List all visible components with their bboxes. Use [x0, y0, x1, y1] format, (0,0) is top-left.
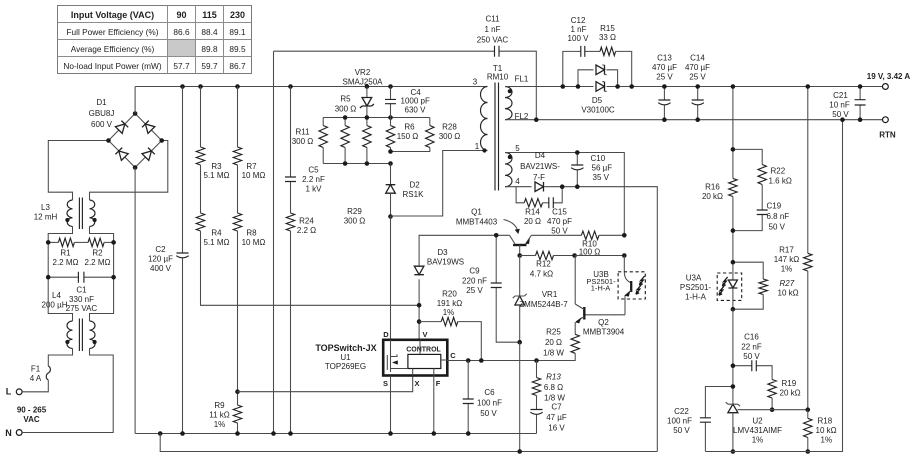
- optocoupler U3B: [586, 270, 645, 315]
- svg-text:C12: C12: [571, 16, 586, 25]
- wire V riser to Q1: [419, 235, 509, 339]
- svg-text:50 V: 50 V: [673, 426, 690, 435]
- capacitor C6: [463, 361, 502, 434]
- svg-text:F: F: [436, 379, 441, 388]
- svg-text:C13: C13: [657, 54, 672, 63]
- terminal L: [6, 387, 22, 397]
- capacitor C9: [462, 235, 520, 342]
- svg-text:U2: U2: [752, 417, 763, 426]
- svg-text:Average Efficiency (%): Average Efficiency (%): [71, 44, 155, 54]
- zener VR1: [513, 256, 569, 343]
- svg-text:1: 1: [475, 142, 480, 151]
- svg-text:50 V: 50 V: [743, 352, 760, 361]
- svg-text:20 kΩ: 20 kΩ: [780, 389, 801, 398]
- svg-text:R4: R4: [211, 229, 222, 238]
- wire Q1 emitter to R10: [531, 234, 581, 236]
- node R18 ground: [806, 449, 811, 454]
- svg-text:5: 5: [515, 144, 520, 153]
- svg-text:1 nF: 1 nF: [484, 25, 500, 34]
- svg-text:300 Ω: 300 Ω: [335, 105, 357, 114]
- svg-text:2.2 MΩ: 2.2 MΩ: [85, 258, 111, 267]
- node C12 right: [629, 84, 634, 89]
- svg-text:TOP269EG: TOP269EG: [325, 362, 366, 371]
- svg-text:PS2501-: PS2501-: [680, 283, 711, 292]
- svg-text:MMBT3904: MMBT3904: [583, 328, 625, 337]
- wire L3 to bridge AC right: [90, 141, 168, 201]
- wire secondary ground bus: [705, 120, 842, 452]
- resistor R2: [85, 238, 114, 267]
- node U3A cathode: [731, 307, 736, 312]
- snubber C12 R15: [563, 16, 632, 87]
- svg-text:R27: R27: [780, 279, 795, 288]
- node VR1 C9: [517, 340, 522, 345]
- node R10 bias: [622, 233, 627, 238]
- clamp rail dots: [343, 115, 348, 120]
- inductor L4: [42, 291, 97, 351]
- svg-text:2.2 nF: 2.2 nF: [302, 175, 325, 184]
- svg-text:R9: R9: [214, 401, 225, 410]
- wire L3 to bridge AC left: [48, 141, 108, 201]
- svg-text:10 kΩ: 10 kΩ: [816, 426, 837, 435]
- svg-text:25 V: 25 V: [656, 73, 673, 82]
- svg-text:X: X: [414, 379, 419, 388]
- svg-text:470 pF: 470 pF: [547, 217, 572, 226]
- svg-text:88.4: 88.4: [201, 27, 218, 37]
- svg-text:R28: R28: [442, 123, 457, 132]
- svg-text:RTN: RTN: [879, 131, 896, 140]
- svg-text:1%: 1%: [214, 420, 226, 429]
- wire L to fuse: [22, 380, 48, 392]
- svg-text:4: 4: [515, 177, 520, 186]
- svg-text:C10: C10: [591, 154, 606, 163]
- capacitor C5: [285, 87, 325, 214]
- wire B+ bus: [135, 86, 487, 88]
- resistor R3: [196, 87, 229, 181]
- svg-text:300 Ω: 300 Ω: [439, 132, 461, 141]
- wire clamp bottom rail: [323, 163, 390, 165]
- diode D5 lower: [596, 82, 605, 92]
- svg-text:230: 230: [230, 10, 245, 20]
- wire L4 to C1 box left: [48, 227, 72, 322]
- resistor R25: [537, 328, 580, 361]
- svg-text:47 µF: 47 µF: [546, 413, 567, 422]
- svg-text:56 µF: 56 µF: [592, 164, 613, 173]
- wire F pin to ground: [433, 376, 435, 434]
- svg-text:100 nF: 100 nF: [667, 417, 692, 426]
- node X R9: [235, 389, 240, 394]
- svg-text:D5: D5: [592, 96, 603, 105]
- transformer T1 bias winding: [505, 144, 520, 187]
- svg-text:25 V: 25 V: [466, 286, 483, 295]
- svg-text:25 V: 25 V: [689, 73, 706, 82]
- svg-text:Full Power Efficiency (%): Full Power Efficiency (%): [66, 27, 158, 37]
- svg-text:U3A: U3A: [686, 274, 702, 283]
- svg-text:RM10: RM10: [487, 73, 509, 82]
- svg-text:No-load Input Power (mW): No-load Input Power (mW): [63, 61, 161, 71]
- svg-text:100 nF: 100 nF: [477, 399, 502, 408]
- resistor R18: [804, 410, 837, 452]
- svg-text:R12: R12: [536, 260, 551, 269]
- svg-text:59.7: 59.7: [201, 61, 218, 71]
- svg-text:Q2: Q2: [598, 318, 609, 327]
- node RTN riser: [840, 117, 845, 122]
- svg-text:6.8 nF: 6.8 nF: [767, 212, 790, 221]
- resistor R28: [391, 118, 461, 152]
- svg-text:BAV19WS: BAV19WS: [427, 258, 464, 267]
- svg-text:5.1 MΩ: 5.1 MΩ: [204, 171, 230, 180]
- node U3A anode: [731, 260, 736, 265]
- svg-text:F1: F1: [31, 365, 41, 374]
- svg-text:MMBT4403: MMBT4403: [456, 218, 498, 227]
- svg-text:C1: C1: [76, 286, 87, 295]
- network R22 C19: [733, 149, 792, 231]
- resistor R7: [233, 87, 265, 181]
- node B+ C4: [388, 84, 393, 89]
- svg-text:100 Ω: 100 Ω: [579, 247, 601, 256]
- diode D4: [520, 151, 560, 192]
- svg-text:90 - 265: 90 - 265: [17, 406, 47, 415]
- svg-text:2.2 Ω: 2.2 Ω: [297, 226, 316, 235]
- fuse F1: [30, 365, 51, 384]
- wire fuse to L4: [48, 349, 72, 367]
- svg-text:1%: 1%: [752, 436, 764, 445]
- terminal output 19V: [867, 72, 911, 89]
- svg-text:D2: D2: [410, 181, 421, 190]
- transistor Q1: [456, 208, 532, 256]
- wire VR1 to ground bus: [519, 342, 521, 451]
- resistor R27: [733, 262, 799, 309]
- svg-text:D: D: [383, 330, 389, 339]
- node V R20: [417, 319, 422, 324]
- label 90-265 VAC: [17, 406, 47, 425]
- resistor R17: [774, 87, 812, 410]
- wire clamp top rail: [323, 117, 430, 119]
- svg-text:600 V: 600 V: [91, 120, 113, 129]
- bridge rectifier D1: [89, 98, 164, 170]
- shunt regulator U2: [726, 402, 782, 451]
- svg-text:33 Ω: 33 Ω: [599, 33, 616, 42]
- node U2 ground: [731, 449, 736, 454]
- svg-text:90: 90: [176, 10, 186, 20]
- svg-text:20 Ω: 20 Ω: [524, 217, 541, 226]
- node clamp D2 top: [388, 149, 393, 154]
- svg-text:R14: R14: [525, 208, 540, 217]
- svg-text:12 mH: 12 mH: [34, 213, 58, 222]
- resistor R12: [520, 251, 575, 278]
- wire Q2 emitter to R25: [574, 322, 576, 334]
- resistor R29: [344, 118, 371, 226]
- svg-text:R3: R3: [211, 162, 222, 171]
- svg-text:C7: C7: [551, 403, 562, 412]
- svg-text:R25: R25: [546, 328, 561, 337]
- svg-text:R5: R5: [340, 95, 351, 104]
- svg-text:L: L: [6, 387, 12, 397]
- svg-text:1000 pF: 1000 pF: [401, 97, 430, 106]
- svg-text:ZMM5244B-7: ZMM5244B-7: [519, 300, 568, 309]
- efficiency table: [58, 6, 252, 74]
- node B+ R7: [235, 84, 240, 89]
- resistor R11: [292, 118, 328, 164]
- capacitor C14: [685, 54, 710, 122]
- node Q1 base: [517, 253, 522, 258]
- wire drain to U1: [390, 217, 392, 340]
- wire U3A to U2: [732, 309, 734, 403]
- optocoupler U3A: [680, 262, 742, 309]
- transistor Q2: [575, 304, 625, 337]
- transformer T1 secondary FL: [505, 75, 529, 122]
- svg-text:220 nF: 220 nF: [462, 277, 487, 286]
- wire bridge bottom to ground bus: [134, 168, 136, 434]
- svg-text:GBU8J: GBU8J: [89, 109, 115, 118]
- resistor R5: [335, 95, 357, 164]
- svg-text:330 nF: 330 nF: [69, 295, 94, 304]
- node C pin R20: [479, 358, 484, 363]
- inductor L3: [34, 198, 97, 230]
- svg-text:630 V: 630 V: [405, 106, 427, 115]
- svg-text:R16: R16: [705, 183, 720, 192]
- ic U1 TOPSwitch-JX: [315, 330, 456, 388]
- svg-text:R11: R11: [295, 128, 310, 137]
- diode D5 upper branch: [578, 65, 618, 115]
- capacitor C10: [571, 150, 612, 189]
- capacitor C22: [667, 387, 733, 452]
- svg-text:1%: 1%: [821, 436, 833, 445]
- svg-text:VR2: VR2: [355, 68, 371, 77]
- svg-text:57.7: 57.7: [173, 61, 190, 71]
- svg-text:Input Voltage (VAC): Input Voltage (VAC): [71, 10, 154, 20]
- wire bias riser to opto collector: [623, 256, 625, 272]
- svg-text:5.1 MΩ: 5.1 MΩ: [204, 238, 230, 247]
- capacitor C21: [829, 84, 865, 122]
- terminal N: [5, 428, 22, 438]
- svg-text:L4: L4: [52, 291, 61, 300]
- svg-text:Q1: Q1: [471, 208, 482, 217]
- capacitor C7: [530, 403, 567, 434]
- svg-text:11 kΩ: 11 kΩ: [209, 411, 230, 420]
- svg-text:CONTROL: CONTROL: [406, 347, 441, 354]
- wire primary pin1 to drain: [391, 151, 488, 217]
- svg-text:V: V: [422, 330, 427, 339]
- svg-text:R13: R13: [546, 373, 561, 382]
- svg-text:1.6 kΩ: 1.6 kΩ: [769, 177, 792, 186]
- node C pin R13: [534, 358, 539, 363]
- svg-text:C11: C11: [485, 15, 500, 24]
- wire S pin to ground: [390, 376, 392, 434]
- wire bias top rail: [505, 153, 624, 236]
- svg-text:D3: D3: [437, 248, 448, 257]
- svg-text:115: 115: [202, 10, 217, 20]
- node R12 right: [572, 253, 577, 258]
- wire RTN rail: [505, 119, 883, 121]
- svg-text:C2: C2: [155, 245, 166, 254]
- svg-text:20 Ω: 20 Ω: [545, 338, 562, 347]
- wire R12 to bias riser: [575, 255, 625, 257]
- svg-text:RS1K: RS1K: [403, 190, 425, 199]
- wire bridge top to B+ bus: [134, 87, 136, 114]
- svg-text:R29: R29: [347, 207, 362, 216]
- svg-text:R19: R19: [782, 379, 797, 388]
- capacitor C11: [274, 15, 537, 120]
- svg-text:10 nF: 10 nF: [829, 101, 850, 110]
- svg-text:S: S: [383, 379, 388, 388]
- transformer T1 core: [494, 83, 496, 191]
- svg-text:10 MΩ: 10 MΩ: [242, 238, 266, 247]
- svg-text:SMAJ250A: SMAJ250A: [342, 78, 383, 87]
- junction dots R1C1 box: [46, 240, 51, 245]
- svg-text:R24: R24: [299, 217, 314, 226]
- node R17 R18: [806, 407, 811, 412]
- svg-text:VAC: VAC: [23, 415, 40, 424]
- svg-text:89.1: 89.1: [229, 27, 246, 37]
- node D5 left: [576, 84, 581, 89]
- svg-text:R22: R22: [771, 167, 786, 176]
- node VR1 return: [517, 449, 522, 454]
- wire R16 branch: [732, 87, 734, 179]
- svg-text:FL1: FL1: [515, 75, 529, 84]
- node B+ C2: [180, 84, 185, 89]
- resistor R9: [209, 392, 241, 434]
- snubber R14 C15: [516, 187, 572, 236]
- svg-text:19 V, 3.42 A: 19 V, 3.42 A: [867, 72, 911, 81]
- svg-text:3: 3: [473, 78, 478, 87]
- resistor R6: [386, 118, 418, 152]
- svg-text:1/8 W: 1/8 W: [544, 394, 565, 403]
- svg-text:R20: R20: [442, 290, 457, 299]
- capacitor C16: [733, 333, 772, 380]
- wire bias bottom rail: [505, 187, 657, 452]
- svg-text:R6: R6: [404, 123, 415, 132]
- svg-text:22 nF: 22 nF: [741, 343, 762, 352]
- wire source return bus: [160, 434, 657, 452]
- resistor R1: [48, 238, 88, 267]
- node C12 left: [561, 84, 566, 89]
- resistor R13: [532, 361, 565, 410]
- svg-text:470 µF: 470 µF: [652, 63, 677, 72]
- svg-text:120 µF: 120 µF: [148, 255, 173, 264]
- wire output rail: [505, 86, 883, 88]
- svg-text:16 V: 16 V: [548, 424, 565, 433]
- svg-text:R18: R18: [818, 417, 833, 426]
- svg-text:100 V: 100 V: [568, 34, 590, 43]
- svg-text:150 Ω: 150 Ω: [397, 132, 419, 141]
- svg-text:147 kΩ: 147 kΩ: [774, 255, 800, 264]
- svg-text:4.7 kΩ: 4.7 kΩ: [530, 270, 553, 279]
- svg-text:4 A: 4 A: [30, 374, 42, 383]
- svg-text:50 V: 50 V: [551, 227, 568, 236]
- svg-text:1%: 1%: [443, 308, 455, 317]
- svg-text:C15: C15: [552, 208, 567, 217]
- wire primary ground bus: [135, 433, 536, 435]
- svg-text:1 kV: 1 kV: [305, 185, 322, 194]
- node C22 top: [731, 384, 736, 389]
- svg-text:VR1: VR1: [542, 290, 558, 299]
- capacitor C13: [652, 54, 677, 122]
- svg-text:TOPSwitch-JX: TOPSwitch-JX: [315, 343, 376, 353]
- resistor R4: [196, 165, 418, 305]
- node FL2 C11: [534, 117, 539, 122]
- capacitor C2: [148, 87, 189, 434]
- wire Q2 collector: [574, 256, 576, 305]
- svg-text:86.7: 86.7: [229, 61, 246, 71]
- svg-text:2.2 MΩ: 2.2 MΩ: [53, 258, 79, 267]
- resistor R8: [233, 165, 265, 392]
- svg-text:1-H-A: 1-H-A: [685, 293, 707, 302]
- svg-text:D4: D4: [535, 151, 546, 160]
- svg-text:R7: R7: [246, 162, 257, 171]
- svg-text:R8: R8: [246, 229, 257, 238]
- svg-text:C14: C14: [690, 54, 705, 63]
- svg-text:191 kΩ: 191 kΩ: [437, 299, 463, 308]
- node V R4: [417, 303, 422, 308]
- node R19 ref: [770, 407, 775, 412]
- node B+ VR2: [365, 84, 370, 89]
- svg-text:6.8 Ω: 6.8 Ω: [544, 383, 563, 392]
- node drain: [388, 214, 393, 219]
- svg-text:50 V: 50 V: [480, 409, 497, 418]
- wire C pin line: [447, 359, 536, 362]
- resistor R19: [768, 379, 801, 410]
- svg-text:300 Ω: 300 Ω: [344, 217, 366, 226]
- svg-text:7-F: 7-F: [533, 173, 545, 182]
- node Q1 collector C9: [494, 233, 499, 238]
- svg-text:L3: L3: [41, 203, 50, 212]
- svg-text:89.8: 89.8: [201, 44, 218, 54]
- node C pin C6: [466, 358, 471, 363]
- resistor R20: [419, 290, 481, 361]
- diode D2: [386, 164, 424, 217]
- wire X pin: [238, 376, 413, 392]
- svg-text:C5: C5: [308, 166, 319, 175]
- svg-text:U1: U1: [340, 353, 351, 362]
- svg-text:C19: C19: [767, 202, 782, 211]
- svg-text:470 µF: 470 µF: [685, 63, 710, 72]
- svg-text:1 nF: 1 nF: [570, 25, 586, 34]
- transformer T1 primary: [473, 64, 509, 151]
- svg-text:C: C: [450, 351, 456, 360]
- node bias riser: [622, 253, 627, 258]
- node output R16: [731, 84, 736, 89]
- svg-text:89.5: 89.5: [229, 44, 246, 54]
- ground bus dots: [158, 431, 163, 436]
- svg-text:35 V: 35 V: [593, 173, 610, 182]
- wire N to L4: [22, 349, 113, 433]
- svg-text:10 kΩ: 10 kΩ: [778, 289, 799, 298]
- svg-text:V30100C: V30100C: [581, 106, 615, 115]
- svg-text:C9: C9: [469, 267, 480, 276]
- svg-text:250 VAC: 250 VAC: [477, 36, 509, 45]
- node D5 right: [615, 84, 620, 89]
- svg-text:R2: R2: [92, 248, 103, 257]
- svg-text:50 V: 50 V: [769, 223, 786, 232]
- svg-text:275 VAC: 275 VAC: [66, 304, 98, 313]
- svg-text:C6: C6: [484, 388, 495, 397]
- svg-text:10 MΩ: 10 MΩ: [242, 171, 266, 180]
- svg-text:R15: R15: [600, 24, 615, 33]
- resistor R24: [286, 213, 316, 434]
- svg-text:86.6: 86.6: [173, 27, 190, 37]
- svg-text:50 V: 50 V: [832, 110, 849, 119]
- node D4 cathode: [560, 184, 565, 189]
- wire C11 to primary ground: [273, 51, 275, 433]
- node output R17: [806, 84, 811, 89]
- resistor R16: [702, 178, 737, 262]
- wire L4 to C1 box right: [90, 227, 114, 322]
- svg-text:20 kΩ: 20 kΩ: [702, 192, 723, 201]
- wire ref line: [738, 409, 808, 411]
- node R22 top: [731, 147, 736, 152]
- diode D3: [414, 248, 464, 275]
- svg-text:400 V: 400 V: [150, 264, 172, 273]
